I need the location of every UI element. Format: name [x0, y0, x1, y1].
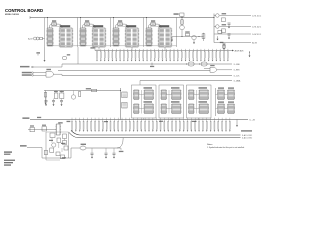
svg-text:1. Symbol indicates that this: 1. Symbol indicates that this part is no…: [207, 146, 245, 149]
svg-text:Notes:: Notes:: [207, 143, 213, 146]
svg-text:D- AC LO IN 2: D- AC LO IN 2: [242, 137, 252, 140]
svg-text:D- RES: D- RES: [234, 70, 241, 72]
svg-text:A+5V: A+5V: [28, 38, 33, 41]
svg-text:D- +5V: D- +5V: [250, 120, 256, 122]
svg-text:MODEL CLB1000: MODEL CLB1000: [5, 14, 19, 16]
svg-text:D- RL 102 C: D- RL 102 C: [252, 27, 262, 29]
svg-text:D- CLK: D- CLK: [234, 76, 240, 78]
svg-text:D- GND: D- GND: [234, 64, 241, 66]
svg-text:D- AC LO IN 1: D- AC LO IN 1: [242, 134, 252, 137]
svg-text:D- DATA: D- DATA: [234, 80, 241, 83]
svg-text:D- RL 101 C: D- RL 101 C: [252, 16, 262, 18]
svg-text:D- BZ 101 C: D- BZ 101 C: [252, 34, 262, 36]
svg-text:AC IN: AC IN: [252, 42, 257, 45]
svg-text:ADDR BUS: ADDR BUS: [235, 50, 245, 53]
svg-text:CONTROL BOARD: CONTROL BOARD: [5, 8, 43, 13]
